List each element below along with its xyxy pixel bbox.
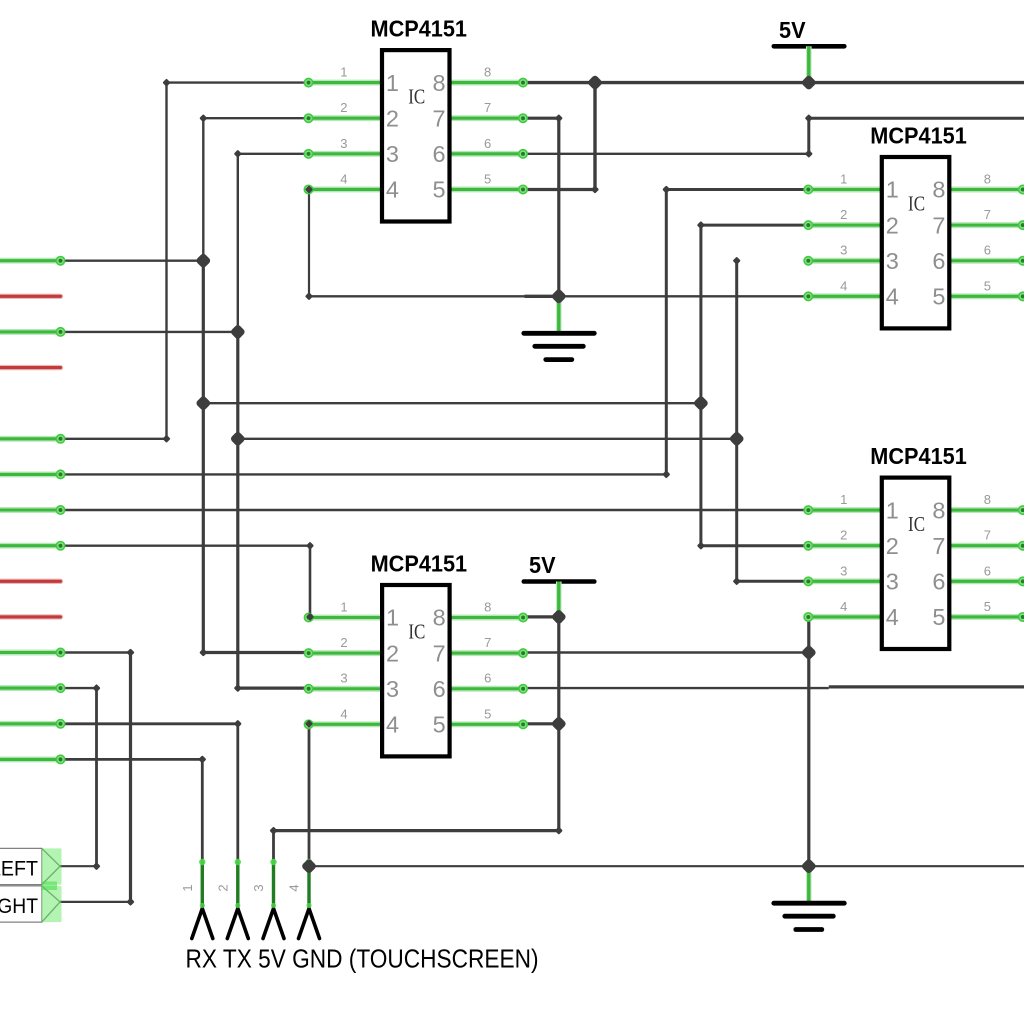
svg-text:6: 6 — [433, 141, 446, 167]
svg-text:8: 8 — [433, 70, 446, 96]
svg-text:IC: IC — [408, 619, 425, 643]
svg-text:IC: IC — [908, 191, 925, 215]
svg-text:2: 2 — [386, 105, 399, 131]
svg-text:6: 6 — [932, 248, 945, 274]
svg-text:2: 2 — [340, 635, 347, 650]
svg-text:5: 5 — [484, 706, 491, 721]
svg-text:3: 3 — [340, 136, 347, 151]
svg-text:6: 6 — [932, 569, 945, 595]
svg-text:2: 2 — [340, 100, 347, 115]
svg-text:7: 7 — [984, 528, 991, 543]
svg-text:7: 7 — [433, 640, 446, 666]
svg-text:2: 2 — [886, 533, 899, 559]
svg-text:8: 8 — [433, 605, 446, 631]
svg-text:3: 3 — [386, 676, 399, 702]
svg-text:8: 8 — [984, 172, 991, 187]
svg-text:8: 8 — [984, 492, 991, 507]
svg-text:7: 7 — [433, 105, 446, 131]
svg-text:7: 7 — [484, 100, 491, 115]
svg-text:5: 5 — [932, 284, 945, 310]
svg-text:5V: 5V — [779, 17, 806, 43]
svg-text:MCP4151: MCP4151 — [870, 443, 967, 469]
svg-text:LEFT: LEFT — [0, 856, 38, 880]
svg-text:5: 5 — [433, 712, 446, 738]
svg-text:2: 2 — [215, 884, 230, 891]
svg-text:1: 1 — [386, 605, 399, 631]
svg-text:8: 8 — [932, 497, 945, 523]
svg-text:1: 1 — [340, 600, 347, 615]
svg-text:1: 1 — [840, 172, 847, 187]
svg-text:6: 6 — [984, 563, 991, 578]
svg-text:4: 4 — [840, 278, 847, 293]
svg-text:RX TX 5V GND (TOUCHSCREEN): RX TX 5V GND (TOUCHSCREEN) — [186, 946, 539, 974]
svg-text:5: 5 — [433, 177, 446, 203]
svg-text:3: 3 — [340, 671, 347, 686]
svg-text:7: 7 — [484, 635, 491, 650]
svg-text:3: 3 — [840, 563, 847, 578]
svg-text:4: 4 — [386, 177, 399, 203]
svg-text:RIGHT: RIGHT — [0, 894, 38, 918]
svg-text:7: 7 — [932, 212, 945, 238]
svg-text:3: 3 — [840, 243, 847, 258]
svg-text:4: 4 — [840, 599, 847, 614]
svg-text:IC: IC — [408, 85, 425, 109]
svg-text:4: 4 — [287, 884, 302, 891]
svg-text:3: 3 — [886, 248, 899, 274]
svg-text:5V: 5V — [529, 552, 556, 578]
svg-text:6: 6 — [984, 243, 991, 258]
svg-text:1: 1 — [886, 497, 899, 523]
svg-text:4: 4 — [386, 712, 399, 738]
svg-text:6: 6 — [484, 136, 491, 151]
svg-text:5: 5 — [984, 278, 991, 293]
svg-text:5: 5 — [484, 171, 491, 186]
svg-text:5: 5 — [984, 599, 991, 614]
svg-text:MCP4151: MCP4151 — [870, 122, 967, 148]
svg-text:1: 1 — [886, 177, 899, 203]
svg-text:MCP4151: MCP4151 — [371, 550, 468, 576]
svg-text:1: 1 — [340, 65, 347, 80]
svg-text:3: 3 — [886, 569, 899, 595]
svg-text:7: 7 — [932, 533, 945, 559]
svg-text:3: 3 — [251, 884, 266, 891]
svg-text:IC: IC — [908, 512, 925, 536]
svg-text:2: 2 — [386, 640, 399, 666]
svg-text:8: 8 — [484, 65, 491, 80]
svg-text:MCP4151: MCP4151 — [371, 16, 468, 42]
svg-text:7: 7 — [984, 207, 991, 222]
svg-text:1: 1 — [386, 70, 399, 96]
svg-text:1: 1 — [180, 884, 195, 891]
svg-text:2: 2 — [886, 212, 899, 238]
svg-text:4: 4 — [886, 604, 899, 630]
svg-text:6: 6 — [484, 671, 491, 686]
svg-text:5: 5 — [932, 604, 945, 630]
svg-text:2: 2 — [840, 207, 847, 222]
svg-text:1: 1 — [840, 492, 847, 507]
svg-text:8: 8 — [932, 177, 945, 203]
svg-text:4: 4 — [886, 284, 899, 310]
svg-text:8: 8 — [484, 600, 491, 615]
svg-text:4: 4 — [340, 706, 347, 721]
svg-text:3: 3 — [386, 141, 399, 167]
svg-text:6: 6 — [433, 676, 446, 702]
svg-text:2: 2 — [840, 528, 847, 543]
svg-text:4: 4 — [340, 171, 347, 186]
